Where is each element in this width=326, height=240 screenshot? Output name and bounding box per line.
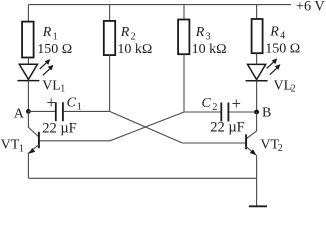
- wire: VT2 emitter down to bottom rail: [256, 155, 258, 178]
- wire: rail to R3 top: [183, 5, 185, 20]
- transistor VT1 emitter lead: [29, 145, 39, 153]
- svg-text:VT: VT: [260, 137, 279, 152]
- LED VL1 cathode bar: [17, 80, 39, 82]
- wire: R1 bottom to VL1 anode: [27, 58, 29, 65]
- svg-text:4: 4: [280, 31, 285, 42]
- wire: horizontal to VT1 base bar: [39, 140, 110, 142]
- capacitor C1 right plate: [62, 102, 64, 121]
- ground: [249, 205, 267, 207]
- transistor VT2 emitter arrowhead: [250, 149, 256, 155]
- transistor VT2 base bar: [245, 134, 247, 149]
- wire: R2 bottom to junction with C1: [109, 55, 111, 111]
- svg-text:B: B: [262, 106, 271, 121]
- wire: rail to R4 top: [256, 5, 258, 19]
- svg-text:1: 1: [53, 31, 58, 42]
- wire: C2 right plate to node B: [229, 111, 256, 113]
- wire: R3 bottom to junction with C2: [183, 54, 185, 112]
- svg-text:22 µF: 22 µF: [210, 120, 245, 136]
- wire: +6V top supply rail: [28, 4, 291, 6]
- svg-text:VL: VL: [42, 78, 61, 93]
- svg-text:3: 3: [206, 31, 211, 42]
- svg-text:2: 2: [212, 102, 217, 113]
- svg-text:150 Ω: 150 Ω: [265, 41, 300, 56]
- svg-text:2: 2: [131, 31, 136, 42]
- node B junction dot: [254, 110, 259, 115]
- LED VL2 emission arrow 2: [270, 64, 281, 75]
- LED VL1 emission arrow 2: [43, 65, 54, 76]
- svg-text:VT: VT: [1, 138, 20, 153]
- svg-text:R: R: [42, 25, 52, 40]
- LED VL2 emission arrow 1: [267, 58, 278, 68]
- transistor VT1 emitter arrowhead: [29, 148, 35, 154]
- svg-text:+: +: [232, 94, 241, 113]
- wire: bottom rail (emitters common): [28, 177, 256, 179]
- svg-text:VL: VL: [274, 79, 293, 94]
- capacitor C2 right plate: [227, 103, 229, 122]
- transistor VT1 collector lead from node A: [28, 111, 38, 136]
- wire: R4 bottom to VL2 anode: [256, 53, 258, 64]
- resistor R4: [252, 19, 263, 53]
- svg-text:+: +: [47, 93, 56, 112]
- capacitor C1 left plate: [55, 102, 57, 121]
- svg-text:10 kΩ: 10 kΩ: [192, 42, 227, 57]
- wire: VT1 emitter down to bottom rail: [27, 152, 29, 178]
- LED VL2 cathode bar: [246, 80, 268, 82]
- transistor VT1 base bar: [38, 132, 40, 148]
- svg-text:10 kΩ: 10 kΩ: [117, 42, 152, 57]
- svg-text:C: C: [67, 96, 77, 111]
- wire: rail to R1 top: [27, 5, 29, 22]
- LED VL2 (triangle): [248, 64, 266, 79]
- resistor R2: [104, 21, 115, 55]
- transistor VT2 collector lead from node B: [247, 112, 257, 138]
- wire: node A to C1 left plate: [28, 110, 55, 112]
- svg-text:150 Ω: 150 Ω: [37, 42, 72, 57]
- svg-text:R: R: [269, 24, 279, 39]
- svg-text:A: A: [14, 107, 25, 122]
- svg-text:22 µF: 22 µF: [42, 120, 77, 136]
- svg-text:2: 2: [278, 143, 283, 154]
- wire: VL2 cathode down to node B: [256, 81, 258, 112]
- node A junction dot: [26, 109, 31, 114]
- resistor R3: [178, 20, 189, 55]
- LED VL1 (triangle): [19, 64, 37, 79]
- wire: rail to R2 top: [109, 5, 111, 21]
- svg-text:1: 1: [60, 83, 65, 94]
- wire: diagonal from R3/C2 junction to VT1 base: [110, 112, 184, 141]
- wire: C1 right plate to R2 bottom junction: [64, 110, 110, 112]
- transistor VT2 emitter lead: [246, 147, 256, 155]
- wire: R3 junction to C2 left plate: [184, 111, 221, 113]
- capacitor C2 left plate: [220, 103, 222, 122]
- wire: horizontal to VT2 base bar: [182, 142, 246, 144]
- svg-text:C: C: [202, 96, 212, 111]
- svg-text:R: R: [120, 25, 130, 40]
- LED VL1 emission arrow 1: [40, 59, 51, 69]
- svg-text:+6 V: +6 V: [296, 0, 326, 15]
- svg-text:1: 1: [19, 144, 24, 155]
- resistor R1: [22, 22, 33, 58]
- wire: VL1 cathode down to node A: [27, 81, 29, 112]
- svg-text:R: R: [195, 25, 205, 40]
- wire: bottom rail to ground: [256, 178, 258, 206]
- wire: diagonal from R2/C1 junction to VT2 base: [110, 111, 183, 143]
- svg-text:2: 2: [291, 84, 296, 95]
